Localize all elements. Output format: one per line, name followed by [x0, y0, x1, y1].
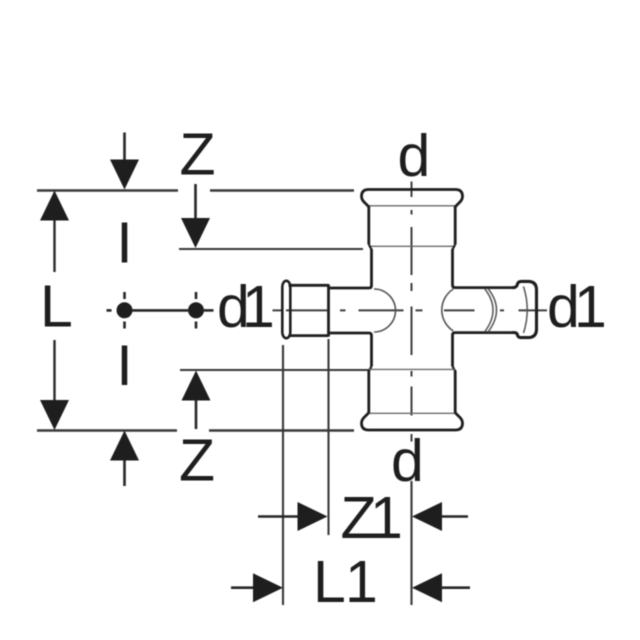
node dot 2 [188, 302, 204, 318]
svg-text:1: 1 [574, 274, 607, 340]
svg-text:1: 1 [345, 549, 378, 615]
Z1 dimension right tail [441, 515, 468, 518]
extension line D (bottom face, y=430) [37, 429, 354, 431]
bottom socket step from tube [369, 367, 455, 372]
Z1 arrow left-pointing [412, 502, 442, 531]
internal arc right [442, 289, 454, 331]
reference line x=124: dot ticks [123, 292, 126, 329]
top socket end line [369, 245, 455, 247]
top socket bead underline [369, 205, 455, 207]
Z1 arrow right-pointing [298, 502, 328, 531]
vertical centerline x=411.5 [411, 182, 413, 442]
left port rim bead capsule [282, 281, 290, 338]
reference line x=124: long dash lower [122, 346, 128, 386]
svg-text:L: L [313, 549, 346, 615]
extension line B (top socket depth, y=249) [179, 248, 363, 250]
extension line x=283 (L1) [282, 345, 284, 605]
horizontal centerline y=310.5 [273, 309, 548, 311]
left port socket bottom edge [289, 334, 329, 337]
node dot 1 [117, 302, 133, 318]
right port bead [513, 281, 537, 337]
dot2 ticks [195, 292, 198, 329]
internal arc left [374, 289, 396, 332]
dimension L arrow down [40, 400, 69, 430]
svg-text:1: 1 [242, 274, 275, 340]
L1 dimension right tail [441, 586, 470, 589]
Z top arrow at x=124 (points down to line A) [110, 133, 139, 190]
left port socket end plate [327, 284, 330, 336]
body tube left wall upper [329, 249, 372, 288]
svg-text:1: 1 [370, 485, 403, 551]
left port socket top edge [289, 284, 329, 287]
dimension L arrow up [40, 191, 69, 221]
top socket step to tube [369, 245, 455, 250]
extension line C (bottom socket depth, y=370) [180, 369, 369, 371]
L1 dimension left tail [231, 586, 254, 589]
bottom socket rim bead [362, 413, 463, 431]
Z bottom arrow at x=124 (points up to line D) [110, 431, 139, 487]
right port tube bottom edge [453, 333, 514, 367]
centerline dots link [132, 309, 188, 312]
L1 arrow right-pointing [253, 573, 283, 602]
dot2 right tick [204, 309, 214, 312]
right port step arcs [485, 289, 497, 333]
bottom socket walls [369, 371, 455, 414]
L1 arrow left-pointing [412, 573, 442, 602]
extension line A (top face, y=190) [37, 189, 354, 191]
svg-text:Z: Z [179, 428, 215, 494]
svg-text:d: d [398, 123, 431, 189]
bottom socket bead line [369, 412, 455, 414]
right port bead inner arc [524, 287, 528, 334]
extension line x=328.5 (Z1) [327, 339, 329, 535]
svg-text:L: L [40, 274, 73, 340]
left port tube bottom edge into body [329, 333, 372, 367]
dot1 left tick [107, 309, 112, 312]
Z top arrow at x=195.5 (points down to line B) [181, 184, 210, 248]
body tube right wall upper [453, 249, 514, 288]
top socket rim bead [362, 190, 463, 208]
reference line x=124: long dash [122, 223, 128, 263]
centerline extension below (to Z1/L1 arrows) [410, 481, 412, 605]
top socket walls [369, 206, 455, 245]
Z bottom arrow at x=196 (points up to line C) [182, 371, 211, 430]
Z1 dimension left tail [258, 515, 299, 518]
svg-text:Z: Z [180, 122, 216, 188]
bottom socket end line [369, 368, 455, 370]
dimension L line [53, 219, 55, 401]
